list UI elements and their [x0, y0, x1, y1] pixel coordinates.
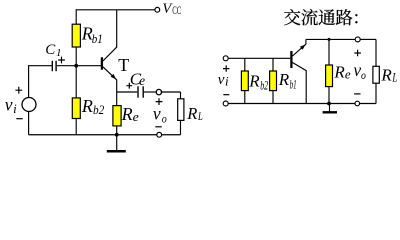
- title AC path: [284, 9, 357, 25]
- resistor RL left: [178, 99, 184, 121]
- node Re bottom junction: [115, 133, 119, 137]
- wire RL top lead right: [375, 39, 377, 66]
- ground: [116, 135, 118, 151]
- svg-text:v: v: [218, 72, 225, 88]
- resistor Re right: [326, 65, 333, 87]
- wire vo node to RL: [161, 91, 181, 93]
- resistor RL right: [373, 66, 379, 83]
- wire input to C1: [29, 65, 52, 67]
- svg-text:o: o: [361, 70, 366, 82]
- resistor Re left: [113, 106, 121, 126]
- resistor Rb2 left: [72, 98, 80, 119]
- svg-text:o: o: [162, 113, 167, 125]
- node Re top junction: [328, 38, 331, 41]
- resistor Rb2 right: [241, 71, 248, 91]
- terminal vi- right: [223, 101, 228, 106]
- wire C1 to base: [57, 65, 101, 67]
- wire Rb2 bottom lead right: [244, 91, 246, 104]
- wire Rb2 top lead: [75, 66, 77, 98]
- svg-text:e: e: [139, 73, 145, 88]
- wire Rb1 top lead right: [272, 58, 274, 71]
- polarity minus vi right: [223, 94, 229, 96]
- polarity plus vo left: [156, 98, 163, 105]
- wire input vertical top: [28, 65, 30, 97]
- svg-text:i: i: [225, 73, 229, 88]
- svg-text:b1: b1: [92, 31, 103, 46]
- transistor right collector stroke: [293, 63, 307, 71]
- capacitor C1: [51, 61, 53, 71]
- wire bottom rail left: [29, 134, 181, 136]
- resistor Rb1 left: [72, 24, 80, 47]
- svg-text:b2: b2: [260, 78, 268, 92]
- transistor right emitter arrow: [300, 44, 306, 49]
- svg-text:v: v: [5, 94, 13, 114]
- svg-text:b1: b1: [290, 77, 297, 91]
- polarity plus vi left: [15, 87, 22, 94]
- wire emitter to Ce: [117, 91, 138, 93]
- wire Rb2 bottom lead: [75, 119, 77, 135]
- wire emitter corner right: [305, 39, 307, 44]
- wire source to rail: [28, 112, 30, 135]
- wire Rb1 top lead: [75, 10, 77, 24]
- polarity plus vo right: [354, 50, 361, 57]
- source vi circle: [22, 98, 36, 112]
- transistor right base bar: [290, 51, 292, 68]
- wire Re bottom lead right: [328, 87, 330, 104]
- polarity minus vi left: [16, 118, 22, 120]
- terminal vo+ left: [156, 89, 161, 94]
- svg-text:L: L: [197, 111, 203, 123]
- terminal vo- left: [157, 132, 162, 137]
- svg-text:e: e: [133, 110, 140, 124]
- wire Re bottom lead: [116, 126, 118, 135]
- polarity minus vo right: [354, 93, 360, 95]
- transistor T base bar: [101, 57, 103, 69]
- polarity plus Ce: [126, 83, 132, 89]
- svg-text:R: R: [121, 104, 133, 124]
- svg-text:R: R: [333, 63, 345, 82]
- node Re bottom junction: [327, 102, 331, 106]
- svg-text:e: e: [345, 68, 351, 82]
- wire Rb1 bottom lead: [75, 47, 77, 66]
- wire RL bottom lead left: [180, 121, 182, 135]
- terminal vo- right: [355, 101, 360, 106]
- svg-text:T: T: [118, 55, 129, 75]
- polarity plus C1: [58, 57, 65, 64]
- node base junction: [74, 64, 78, 68]
- svg-text:R: R: [81, 96, 93, 116]
- svg-text:1: 1: [56, 47, 62, 59]
- svg-text:R: R: [278, 70, 290, 89]
- svg-text:i: i: [13, 101, 17, 116]
- transistor right emitter stroke: [293, 44, 306, 56]
- terminal vi+ right: [223, 56, 228, 61]
- wire Rb2 top lead right: [244, 58, 246, 71]
- wire emitter vertical: [116, 80, 118, 106]
- svg-text:CC: CC: [172, 5, 181, 17]
- transistor T emitter arrow: [111, 74, 117, 80]
- wire Rb1 bottom lead right: [272, 91, 274, 104]
- svg-text:R: R: [380, 65, 392, 84]
- wire collector down right: [305, 70, 307, 103]
- svg-text:L: L: [392, 71, 398, 85]
- terminal VCC: [155, 7, 160, 12]
- wire RL top lead left: [180, 92, 182, 99]
- wire RL bottom lead right: [375, 83, 377, 103]
- transistor T emitter stroke: [103, 67, 117, 80]
- wire Ce to vo node: [144, 91, 156, 93]
- terminal vo+ right: [355, 37, 360, 42]
- wire base rail right: [228, 57, 290, 59]
- resistor Rb1 right: [270, 71, 277, 91]
- capacitor Ce: [137, 86, 139, 97]
- svg-text:v: v: [153, 103, 161, 123]
- wire vo node to RL right: [360, 38, 376, 40]
- svg-text:b2: b2: [93, 102, 105, 117]
- wire collector lead: [116, 10, 118, 47]
- svg-text:R: R: [248, 72, 260, 91]
- wire top rail to VCC: [76, 9, 155, 11]
- wire Re top lead right: [328, 39, 330, 65]
- ground right: [329, 104, 331, 112]
- svg-text:C: C: [45, 42, 56, 58]
- polarity plus vi right: [223, 65, 229, 71]
- wire emitter top rail right: [306, 38, 355, 40]
- transistor T collector stroke: [103, 47, 117, 61]
- wire bottom rail right: [228, 103, 376, 105]
- svg-text:R: R: [186, 104, 197, 123]
- polarity minus vo left: [155, 126, 161, 128]
